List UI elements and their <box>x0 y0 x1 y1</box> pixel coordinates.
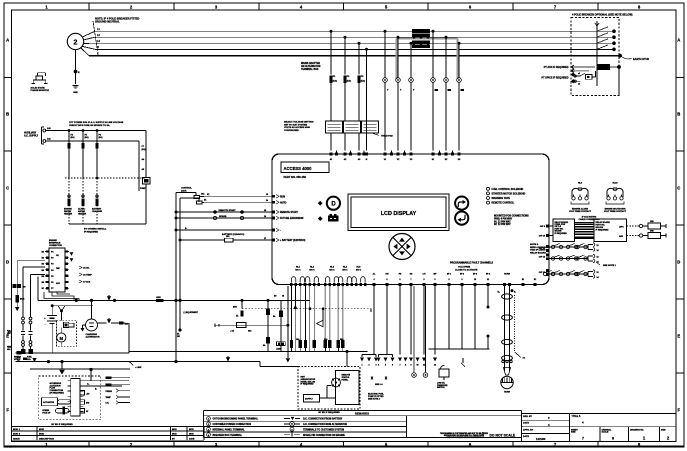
input sender drops <box>429 286 490 358</box>
junction breaker box right <box>617 65 621 95</box>
svg-text:K1: K1 <box>207 194 209 196</box>
svg-text:WARNING TAPE: WARNING TAPE <box>492 197 511 200</box>
svg-text:RUN: RUN <box>280 196 285 198</box>
wires outputs to arrows <box>374 286 435 355</box>
wire crank feed <box>52 305 93 307</box>
led lamp-test <box>318 201 323 206</box>
svg-text:D: D <box>677 260 680 265</box>
wire avr dashed A <box>627 224 649 227</box>
svg-text:7: 7 <box>400 364 401 366</box>
svg-text:DRN. BY: DRN. BY <box>523 416 533 418</box>
breaker neutral riser <box>595 21 599 86</box>
note voltage selection <box>284 121 314 132</box>
actuator box <box>42 398 58 406</box>
svg-text:4: 4 <box>608 194 609 197</box>
note fuel pump <box>368 383 385 400</box>
wire avr dashed B <box>627 234 649 237</box>
junction rail a <box>75 299 182 302</box>
wire bus L3 <box>95 42 614 44</box>
svg-text:DESCRIPTION: DESCRIPTION <box>39 438 54 440</box>
svg-text:IF REQUIRED: IF REQUIRED <box>84 231 99 233</box>
output contact row O/P10 <box>549 243 600 252</box>
svg-text:4 POLE BREAKER OPTIONAL (SEE N: 4 POLE BREAKER OPTIONAL (SEE NOTE BELOW) <box>572 13 633 16</box>
svg-text:EARTH STUD: EARTH STUD <box>633 58 649 61</box>
icon battery <box>328 214 339 221</box>
svg-text:4: 4 <box>615 194 616 197</box>
junction generator earth <box>74 70 80 74</box>
fuses F1 F2 F3 drops <box>329 30 365 121</box>
wire left edge terminals <box>13 284 46 289</box>
svg-text:B0: B0 <box>23 287 25 289</box>
svg-text:B2: B2 <box>42 258 44 260</box>
svg-text:MOD: MOD <box>189 434 194 436</box>
svg-text:IF REQUIRED: IF REQUIRED <box>596 229 609 231</box>
wire horn thick <box>413 286 415 372</box>
note by others <box>84 228 107 234</box>
fused drops group B <box>290 286 316 352</box>
svg-text:VOLTS AS ACCESS 4000: VOLTS AS ACCESS 4000 <box>284 126 311 129</box>
svg-text:01: 12 PIN WAY: 01: 12 PIN WAY <box>494 220 511 223</box>
svg-text:INTERNAL PANEL TERMINAL: INTERNAL PANEL TERMINAL <box>213 428 246 431</box>
wire run input <box>204 194 274 196</box>
label low oil switch <box>437 383 448 390</box>
svg-text:4: 4 <box>586 194 587 197</box>
svg-text:SIZE: SIZE <box>571 432 576 434</box>
svg-text:TERMINALS TO CUSTOMER SYSTEM: TERMINALS TO CUSTOMER SYSTEM <box>303 428 344 431</box>
svg-text:LINK: LINK <box>156 297 161 299</box>
controller U1 outline <box>272 154 549 285</box>
svg-text:(IF REQUIRED): (IF REQUIRED) <box>50 392 65 394</box>
svg-text:VOLT FREE CONTACT: VOLT FREE CONTACT <box>569 210 592 213</box>
svg-text:TEMP: TEMP <box>106 397 112 399</box>
svg-text:ON ALTERNATOR: ON ALTERNATOR <box>301 65 321 68</box>
circuit breaker CB1 poles <box>597 27 616 51</box>
svg-text:PANEL: PANEL <box>342 378 349 381</box>
svg-text:A.C. CONNECTION FROM ALTERNATO: A.C. CONNECTION FROM ALTERNATOR <box>303 423 347 426</box>
wire rail dc positive <box>38 277 310 301</box>
svg-text:ENGINE ALARM: ENGINE ALARM <box>572 208 588 211</box>
svg-text:4: 4 <box>573 194 574 197</box>
svg-text:SCALE: SCALE <box>602 431 609 434</box>
ribbon cable <box>575 223 595 239</box>
label triad pad <box>372 133 393 138</box>
svg-text:GROUND NEUTRAL: GROUND NEUTRAL <box>95 20 120 24</box>
svg-text:-: - <box>280 229 281 232</box>
svg-text:11: 11 <box>487 279 489 281</box>
svg-text:F: F <box>6 408 9 413</box>
earth tap rail a <box>107 295 111 300</box>
speed pickup <box>42 407 69 415</box>
wire bus E <box>81 48 621 56</box>
svg-text:RL10: RL10 <box>612 183 618 185</box>
svg-text:N/O C: N/O C <box>342 270 348 272</box>
svg-text:B6: B6 <box>42 282 44 284</box>
svg-text:PICK UP: PICK UP <box>42 412 51 414</box>
svg-text:SET TO SUIT SYSTEM: SET TO SUIT SYSTEM <box>284 124 307 126</box>
wire battery leads <box>51 304 54 353</box>
svg-text:CHARGER: CHARGER <box>92 210 103 213</box>
svg-text:N/O C: N/O C <box>329 270 335 272</box>
ct dashed interconnect <box>65 177 146 180</box>
svg-text:NOTE 3.: NOTE 3. <box>530 244 539 246</box>
ground generator <box>72 86 78 95</box>
svg-text:E1: E1 <box>522 279 524 281</box>
isolator switch pair <box>21 317 33 354</box>
svg-text:8: 8 <box>449 279 450 281</box>
wire spare input <box>175 215 274 220</box>
svg-text:AUTO: AUTO <box>280 201 287 204</box>
svg-text:SEE NOTE 2: SEE NOTE 2 <box>368 398 381 400</box>
svg-text:8: 8 <box>405 364 406 366</box>
starter solenoid <box>64 322 74 327</box>
svg-text:MOUNTED FOR CONNECTIONS: MOUNTED FOR CONNECTIONS <box>494 216 529 218</box>
svg-text:O/P 10: O/P 10 <box>539 236 546 238</box>
svg-text:MOD 2: MOD 2 <box>13 434 21 436</box>
conduit labels <box>498 292 517 294</box>
controller nameplate <box>281 162 329 179</box>
svg-text:C: C <box>6 186 9 191</box>
wire drop x260 <box>260 362 298 367</box>
svg-text:D.C. CONNECTION FROM BATTERY: D.C. CONNECTION FROM BATTERY <box>303 418 343 421</box>
svg-text:SWITCH: SWITCH <box>437 387 445 389</box>
wire PT aux thick <box>573 67 618 71</box>
led indicator column <box>487 187 526 204</box>
svg-text:A.C. SUPPLY: A.C. SUPPLY <box>24 134 39 137</box>
svg-text:MOD: MOD <box>172 434 177 436</box>
controller top pin stubs <box>337 151 453 155</box>
breaker option enclosure <box>571 18 619 96</box>
svg-text:MOD: MOD <box>189 429 194 431</box>
svg-text:CLOSE TO ACTIVATE: CLOSE TO ACTIVATE <box>455 268 478 271</box>
svg-text:4: 4 <box>374 278 375 281</box>
svg-text:LAMP: LAMP <box>276 348 282 351</box>
svg-text:GND: GND <box>73 92 78 94</box>
wire battery negative <box>175 228 274 232</box>
resistor R1 <box>648 221 666 229</box>
label engine connector <box>49 240 62 247</box>
svg-text:MOD: MOD <box>172 429 177 431</box>
svg-text:BY ED IF REQUIRED: BY ED IF REQUIRED <box>51 424 73 426</box>
label control fuses <box>181 188 192 193</box>
svg-text:HEATER: HEATER <box>64 212 73 215</box>
svg-text:CPT POWER 5VA. IF A.C. SUPPLY: CPT POWER 5VA. IF A.C. SUPPLY IS LINE VO… <box>69 121 124 124</box>
wire heater common <box>69 223 146 225</box>
svg-text:10: 10 <box>474 279 476 281</box>
svg-text:a1: a1 <box>578 73 580 75</box>
relay board right module <box>594 219 627 242</box>
wire connector feeds <box>17 261 45 317</box>
wire ct mid leg <box>139 141 146 191</box>
svg-text:IF REQUIRED: IF REQUIRED <box>555 233 568 235</box>
controller left terminal column <box>272 195 305 243</box>
wire bus N <box>95 48 614 50</box>
svg-text:A: A <box>6 38 9 43</box>
load arrows row <box>360 355 437 362</box>
relay RL10 engine shutdown contact <box>604 183 627 214</box>
svg-text:E2: E2 <box>534 279 536 281</box>
alarm horn H1 <box>501 376 513 393</box>
svg-text:4: 4 <box>580 194 581 197</box>
svg-text:IF REQUIRED: IF REQUIRED <box>301 384 314 386</box>
svg-text:4: 4 <box>621 194 622 197</box>
relay RL9 engine alarm contact <box>569 183 592 214</box>
wire conduit sense dotted <box>515 295 526 360</box>
svg-text:13: 13 <box>597 272 599 274</box>
svg-text:E: E <box>677 334 680 339</box>
svg-text:CUSTOMER POWER CONNECTION: CUSTOMER POWER CONNECTION <box>213 424 252 426</box>
svg-text:a2: a2 <box>578 84 580 86</box>
annunciator link box <box>304 386 336 403</box>
starter motor M1 <box>57 328 66 347</box>
svg-text:9: 9 <box>411 364 412 366</box>
phase monitor K1 <box>31 73 50 92</box>
svg-text:+ BATTERY (12/24VDC): + BATTERY (12/24VDC) <box>280 239 306 242</box>
svg-text:ACCESS 4000: ACCESS 4000 <box>284 166 313 171</box>
AC sense drops cluster 2 <box>383 30 415 151</box>
svg-text:1: 1 <box>362 364 363 366</box>
note 4-pole breaker (top-left) <box>93 17 140 51</box>
svg-text:2: 2 <box>369 364 370 366</box>
svg-text:VOLT FREE CONTACT: VOLT FREE CONTACT <box>604 210 627 213</box>
svg-text:CONTROL: CONTROL <box>181 188 192 190</box>
svg-text:PINS: 4 PIN WAY: PINS: 4 PIN WAY <box>494 217 513 220</box>
AC sense drops cluster 3 <box>431 30 464 151</box>
wire generator earth drop <box>75 50 77 84</box>
svg-text:B7: B7 <box>42 288 44 290</box>
svg-text:WITHOUT CONSENT OF THE PROPRIE: WITHOUT CONSENT OF THE PROPRIETOR <box>447 437 483 439</box>
connector block J1 <box>44 248 79 300</box>
pressure switch S1 <box>439 365 449 380</box>
label see note 1 <box>596 262 617 267</box>
svg-text:DATE: DATE <box>523 422 529 425</box>
label battery feed <box>222 233 244 236</box>
svg-text:12: 12 <box>434 364 436 366</box>
svg-text:STARTER MOTOR SOLENOID: STARTER MOTOR SOLENOID <box>492 192 526 195</box>
note 3 internal <box>530 244 550 254</box>
svg-text:ISSUE: ISSUE <box>13 438 20 440</box>
output contact row O/P11 <box>549 254 600 263</box>
note cpt power <box>69 121 124 127</box>
svg-text:FUTURE EXPANSION: FUTURE EXPANSION <box>280 217 304 220</box>
junction earth stud <box>618 54 622 58</box>
wire ct right leg <box>145 131 147 225</box>
keypad navigation cluster <box>389 234 415 260</box>
svg-text:SOLID STATE: SOLID STATE <box>31 87 46 90</box>
drawn stamp <box>6 445 17 448</box>
fused drops group C thick <box>324 286 345 352</box>
svg-text:(3A): (3A) <box>142 148 146 151</box>
wire bus L2 <box>95 36 614 38</box>
terminal diamonds PT taps <box>542 65 576 84</box>
wire rail lower-left <box>16 351 130 361</box>
svg-text:SEE 1-4: SEE 1-4 <box>375 383 383 386</box>
svg-text:(5A): (5A) <box>71 136 75 139</box>
wire riser x129 <box>128 323 130 353</box>
svg-text:(5A): (5A) <box>361 80 365 83</box>
annunciator text <box>301 377 316 386</box>
svg-text:(5A): (5A) <box>85 136 89 139</box>
svg-text:16: 16 <box>264 216 266 218</box>
svg-text:PART NO. 650-150: PART NO. 650-150 <box>284 175 307 179</box>
svg-text:2: 2 <box>74 39 78 46</box>
wire control feed risers <box>176 193 199 362</box>
svg-text:13: 13 <box>597 245 599 247</box>
svg-text:MAINS ADAPTER: MAINS ADAPTER <box>301 62 320 65</box>
alternator G1 <box>86 299 98 331</box>
note 4 pole breaker optional (top-right) <box>572 13 633 16</box>
governor pin boxes <box>80 391 90 414</box>
svg-text:6: 6 <box>392 364 393 366</box>
svg-text:PUMP: PUMP <box>140 188 146 190</box>
svg-text:D: D <box>6 260 9 265</box>
breaker auxiliary switch <box>574 71 595 86</box>
svg-text:(5A): (5A) <box>333 80 337 83</box>
svg-text:18: 18 <box>282 296 284 298</box>
earth taps rail neg <box>129 356 230 369</box>
annunciator enclosure <box>298 367 360 410</box>
svg-text:STOP: STOP <box>14 359 20 361</box>
svg-text:D: D <box>331 202 336 208</box>
wire remote start <box>175 209 274 214</box>
svg-text:APPD. BY: APPD. BY <box>523 428 534 431</box>
voltage selector links <box>326 121 379 133</box>
svg-text:LCD DISPLAY: LCD DISPLAY <box>381 211 417 217</box>
svg-text:TERMINAL BOX: TERMINAL BOX <box>301 68 319 71</box>
svg-text:N/O C: N/O C <box>309 270 315 272</box>
label earth stud <box>622 57 650 61</box>
svg-text:CONNECTOR: CONNECTOR <box>49 245 62 247</box>
wire rail negative <box>16 361 261 363</box>
svg-text:MOD: MOD <box>39 429 45 431</box>
svg-text:RELAY BOARD: RELAY BOARD <box>530 251 546 254</box>
fuel transfer component <box>140 178 150 190</box>
actuator cable <box>58 400 71 404</box>
svg-text:MOD 1: MOD 1 <box>13 429 21 431</box>
fuse link rail <box>156 297 164 302</box>
spark symbols <box>371 376 387 380</box>
wire aux L <box>46 130 146 132</box>
svg-text:AUXILIARY: AUXILIARY <box>24 132 37 135</box>
svg-text:12/21/00: 12/21/00 <box>536 438 546 441</box>
flexible conduit run <box>502 286 513 371</box>
label governor option <box>51 424 73 426</box>
svg-text:15: 15 <box>264 210 266 212</box>
svg-text:C6 TEMP: C6 TEMP <box>83 275 92 277</box>
junction rail neg <box>47 360 178 363</box>
svg-text:HORN: HORN <box>504 391 511 393</box>
label charging alternator <box>86 333 100 339</box>
svg-text:5: 5 <box>387 279 388 281</box>
svg-text:REMOTE CONTROL: REMOTE CONTROL <box>492 202 515 205</box>
heater fused feeds <box>67 129 102 224</box>
lamp load L2 <box>423 373 428 378</box>
svg-text:FUEL CONTROL SOLENOID: FUEL CONTROL SOLENOID <box>492 188 524 191</box>
conduit end terminals <box>502 360 512 362</box>
horn funnel <box>504 368 511 376</box>
labels heater loads <box>64 208 103 216</box>
governor enclosure <box>39 376 101 420</box>
fused drops group A <box>263 286 297 363</box>
svg-text:11: 11 <box>423 364 425 366</box>
governor top wires <box>83 381 129 391</box>
svg-text:PHASE MONITOR: PHASE MONITOR <box>31 89 50 92</box>
svg-text:N/O C: N/O C <box>295 270 301 272</box>
svg-text:13: 13 <box>266 194 268 196</box>
fuse control B <box>197 199 208 205</box>
wire alternator aux <box>98 318 130 325</box>
wire battery positive <box>179 235 274 242</box>
svg-text:(12V): (12V) <box>181 190 187 192</box>
svg-text:ACTUATOR: ACTUATOR <box>43 401 55 404</box>
svg-text:PT AUX IF REQUIRED: PT AUX IF REQUIRED <box>544 66 569 69</box>
button enter <box>455 212 468 225</box>
svg-text:SIG: SIG <box>86 402 90 404</box>
svg-text:MCB: MCB <box>20 299 25 301</box>
svg-text:B: B <box>6 112 9 117</box>
wire spare op <box>425 286 427 372</box>
wire actuator riser <box>89 368 92 381</box>
controller right terminal column <box>539 225 549 276</box>
svg-text:O/P 9: O/P 9 <box>540 226 546 228</box>
svg-text:OUTGOING/INCOMING PANEL TERMIN: OUTGOING/INCOMING PANEL TERMINAL <box>213 418 259 421</box>
svg-text:DATE: DATE <box>189 437 195 440</box>
wire fuel solenoid arrow <box>317 307 325 326</box>
wire annunciator riser <box>346 350 349 367</box>
svg-text:BRKR: BRKR <box>599 68 605 70</box>
label auxiliary AC supply <box>24 132 39 138</box>
svg-text:CONFIGURED: CONFIGURED <box>284 130 299 132</box>
controller top terminal row <box>330 153 462 161</box>
resistor R2 <box>648 231 666 239</box>
svg-text:PROGRAMMABLE FAULT CHANNELS: PROGRAMMABLE FAULT CHANNELS <box>450 262 494 265</box>
svg-text:BR5: BR5 <box>233 307 237 309</box>
alternator symbol remark 2 <box>67 33 83 49</box>
LCD display module <box>348 194 449 231</box>
svg-text:2W: 2W <box>177 336 180 338</box>
load arrow labels <box>362 363 437 366</box>
breaker aux contact block <box>598 64 611 70</box>
contact tick <box>461 358 465 367</box>
svg-text:3: 3 <box>376 364 377 366</box>
svg-text:C: C <box>677 186 680 191</box>
earth battery isolator <box>15 307 19 311</box>
svg-text:N/O C: N/O C <box>356 270 362 272</box>
lamp load L1 <box>412 373 417 380</box>
engine sender stubs <box>106 377 131 405</box>
svg-text:SUPPLY: SUPPLY <box>305 399 313 401</box>
governor connector strip <box>68 379 84 417</box>
svg-text:5: 5 <box>385 364 386 366</box>
fuse battery isolator <box>16 295 25 307</box>
breaker block assembly <box>412 29 430 48</box>
svg-text:B3: B3 <box>42 264 44 266</box>
svg-text:(-) EQUIPMENT: (-) EQUIPMENT <box>184 312 199 314</box>
governor text <box>50 383 65 394</box>
svg-text:TITLE A: TITLE A <box>572 415 581 418</box>
earth main arrow <box>59 362 65 375</box>
svg-text:C7 AUX: C7 AUX <box>83 281 91 284</box>
svg-text:DO NOT SCALE: DO NOT SCALE <box>489 433 515 437</box>
terminal bracket aux supply <box>42 127 52 144</box>
svg-text:BREAKER BOX TERMINAL: BREAKER BOX TERMINAL <box>213 434 243 437</box>
svg-text:HEATER: HEATER <box>78 212 87 215</box>
output contact row O/P13 <box>543 270 599 279</box>
led battery <box>318 216 323 221</box>
wire auto input <box>204 199 274 202</box>
annunciator module <box>336 371 360 405</box>
svg-text:REMOTE START: REMOTE START <box>280 211 299 214</box>
svg-text:C5 OIL: C5 OIL <box>83 268 90 270</box>
